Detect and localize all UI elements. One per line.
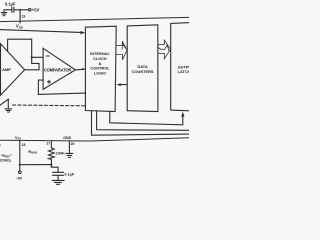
svg-text:0.1µF: 0.1µF [64, 173, 74, 177]
svg-text:+5V: +5V [32, 8, 40, 13]
bus arrow clock to counters (hollow) [116, 41, 127, 60]
resistor RBIAS 100K zigzag [49, 148, 55, 160]
wire C1 left [4, 9, 12, 11]
svg-text:0.1µF: 0.1µF [5, 1, 16, 6]
thin clock arrow marks over bus arrow 1 [122, 44, 126, 50]
svg-text:OP AMP: OP AMP [0, 67, 11, 72]
svg-text:620KΩ): 620KΩ) [0, 158, 11, 162]
capacitor C2 0.1uF plates [53, 172, 64, 175]
wire C2 to ground [57, 175, 59, 180]
svg-text:18: 18 [22, 143, 26, 147]
-5V terminal [19, 171, 22, 174]
svg-text:COUNTERS: COUNTERS [132, 69, 154, 74]
block INTERNAL CLOCK & CONTROL LOGIC [85, 26, 116, 111]
svg-text:LATCHES: LATCHES [178, 69, 189, 74]
switch S1 auto-zero lever [0, 99, 8, 105]
svg-text:VDD: VDD [16, 24, 23, 30]
ground (C1) [1, 10, 7, 16]
+5V terminal [29, 9, 31, 11]
wire -5V rail [20, 164, 52, 166]
svg-text:COMPARATOR: COMPARATOR [44, 67, 71, 72]
wire comparator output to control logic [75, 68, 84, 71]
comparator U2 [43, 48, 75, 89]
comparator minus marker [46, 55, 49, 57]
wire control output 3 [92, 111, 190, 136]
thin latch arrow hook over bus arrow 2 [158, 45, 169, 51]
svg-text:−5V: −5V [16, 176, 23, 180]
svg-text:LOGIC: LOGIC [94, 70, 107, 75]
IC outline bottom edge [0, 138, 189, 141]
ground (pin 20) [66, 153, 73, 157]
wire jog to capacitor C2 [51, 165, 58, 173]
wire switch to ground [7, 99, 9, 109]
ground (switch) [5, 109, 12, 112]
wire VDD pin 19 [19, 10, 21, 23]
block OUTPUT LATCHES [171, 23, 191, 111]
op-amp U1 OP AMP [1, 44, 25, 96]
ground (C2) [52, 180, 64, 184]
svg-text:100K: 100K [56, 151, 65, 155]
node -5V rail junction [19, 164, 21, 166]
block DATA COUNTERS [127, 25, 158, 112]
bus arrow counters to latches (hollow) [158, 40, 171, 59]
comparator plus marker [48, 80, 51, 83]
wire to comparator inverting input [32, 56, 43, 58]
wire counters to control logic (left arrow) [120, 84, 127, 86]
node A (junction on comparator input) [31, 56, 33, 58]
wire into control logic with arrow [0, 30, 81, 33]
svg-text:19: 19 [22, 15, 26, 19]
svg-text:17: 17 [46, 141, 50, 145]
wire latch enable (up into latches) [110, 111, 183, 125]
wire control output 2 [97, 111, 190, 131]
svg-text:RBIAS: RBIAS [28, 150, 37, 155]
node resistor/cap junction [50, 164, 52, 166]
IC outline top edge [0, 17, 189, 21]
svg-text:20: 20 [71, 142, 75, 146]
svg-text:GND: GND [63, 136, 71, 140]
pin 20 wire [68, 141, 70, 154]
pin 18 wire [19, 141, 21, 171]
wire C1 to +5V [14, 9, 29, 11]
wire comparator + input from control logic (step) [38, 80, 85, 94]
node VDD junction [19, 9, 21, 11]
pin 17 wire [50, 141, 52, 148]
wire op-amp output / feedback loop [8, 39, 39, 70]
capacitor C1 plates [12, 7, 14, 12]
wire resistor bottom [50, 159, 52, 164]
dashed control line [13, 104, 86, 107]
